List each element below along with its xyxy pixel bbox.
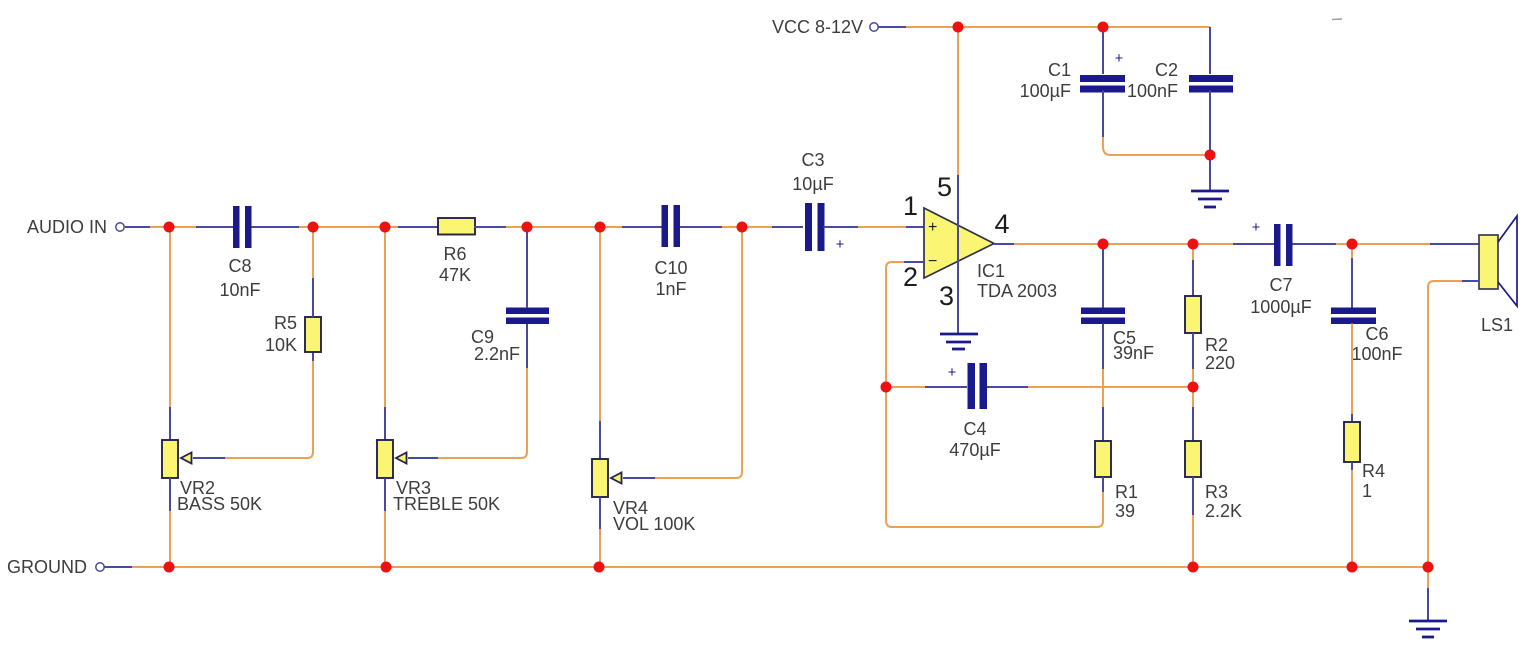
node signal-VR3 junction — [380, 222, 391, 233]
wire audio-in lead — [125, 226, 150, 228]
node GROUND terminal — [7, 557, 104, 577]
wire C6 to R4 — [1351, 324, 1353, 415]
wire VR4 wiper to node — [655, 227, 742, 478]
label C3 10uF — [792, 150, 833, 194]
label C5 39nF — [1113, 328, 1154, 363]
svg-text:VOL 100K: VOL 100K — [613, 514, 695, 534]
wire C10 right lead — [680, 226, 722, 228]
svg-text:2.2K: 2.2K — [1205, 501, 1242, 521]
capacitor C1 — [1080, 75, 1125, 93]
capacitor C7 — [1274, 224, 1293, 266]
capacitor C3 — [805, 203, 825, 251]
node signal-VR4 junction — [595, 222, 606, 233]
svg-text:C3: C3 — [801, 150, 824, 170]
wire R5 column top — [312, 227, 314, 278]
svg-text:C6: C6 — [1365, 324, 1388, 344]
label IC1 TDA 2003 — [977, 261, 1057, 301]
label R2 220 — [1205, 335, 1235, 373]
resistor R1 — [1095, 441, 1111, 477]
wire VR3 bottom lead — [384, 478, 386, 511]
svg-text:10K: 10K — [265, 335, 297, 355]
wire R3 bottom lead — [1192, 477, 1194, 515]
wire signal row segment 2 — [299, 226, 398, 228]
node feedback-R2R3 junction — [1188, 382, 1199, 393]
wire C8 left lead — [196, 226, 233, 228]
wire R2 to feedback node — [1192, 369, 1194, 387]
potentiometer VR3 body — [377, 440, 393, 478]
label C6 100nF — [1351, 324, 1402, 364]
node VCC terminal — [772, 17, 878, 37]
label VR2 BASS 50K — [177, 478, 262, 514]
svg-text:5: 5 — [937, 172, 952, 202]
wire R6 left lead — [398, 226, 438, 228]
svg-text:BASS 50K: BASS 50K — [177, 494, 262, 514]
wire VR4 column bottom — [599, 529, 601, 567]
wire bottom ground stub orange — [1427, 567, 1429, 588]
wire speaker bottom lead — [1462, 280, 1479, 282]
wire C3 right lead — [824, 226, 859, 228]
wire op-amp pin1 lead — [906, 226, 924, 228]
capacitor C10 — [662, 205, 681, 247]
wire C4 right lead — [987, 386, 1028, 388]
svg-text:R1: R1 — [1115, 482, 1138, 502]
node ground-R4 junction — [1347, 562, 1358, 573]
svg-text:470µF: 470µF — [949, 440, 1000, 460]
svg-text:4: 4 — [994, 209, 1009, 239]
node signal-R5 junction — [308, 222, 319, 233]
svg-text:C2: C2 — [1155, 60, 1178, 80]
node signal-VR2 junction — [164, 222, 175, 233]
label R4 1 — [1362, 461, 1385, 501]
svg-text:C1: C1 — [1048, 60, 1071, 80]
svg-text:+: + — [1252, 220, 1260, 236]
node ground-speaker junction — [1423, 562, 1434, 573]
resistor R4 — [1344, 422, 1360, 462]
potentiometer VR3 wiper arrow — [396, 453, 407, 464]
label R1 39 — [1115, 482, 1138, 521]
capacitor C2 — [1189, 75, 1233, 93]
wire VR3 column bottom — [384, 511, 386, 567]
wire R5 top lead — [312, 278, 314, 317]
wire VR3 wiper to C9 — [438, 368, 527, 458]
svg-text:+: + — [1115, 51, 1123, 67]
svg-text:1: 1 — [1362, 481, 1372, 501]
node AUDIO IN terminal — [27, 217, 124, 237]
node signal-VR4wiper junction — [737, 222, 748, 233]
label C4 470uF — [949, 419, 1000, 460]
svg-text:C8: C8 — [228, 256, 251, 276]
node ground-VR3 junction — [381, 562, 392, 573]
potentiometer VR4 wiper arrow — [611, 473, 622, 484]
svg-text:+: + — [836, 237, 844, 253]
svg-text:1nF: 1nF — [655, 279, 686, 299]
svg-text:+: + — [928, 219, 937, 236]
wire ground lead — [104, 566, 132, 568]
svg-text:TREBLE 50K: TREBLE 50K — [393, 494, 500, 514]
wire feedback row segment 1 — [886, 386, 925, 388]
svg-text:C4: C4 — [963, 419, 986, 439]
loudspeaker LS1 — [1479, 216, 1517, 306]
wire C6 top lead — [1351, 244, 1353, 258]
wire output row segment 2 — [1336, 243, 1430, 245]
artifact smudge top right — [1332, 18, 1342, 21]
svg-text:47K: 47K — [439, 265, 471, 285]
resistor R3 — [1185, 441, 1201, 477]
wire top rail — [906, 26, 1210, 28]
label C2 100nF — [1127, 60, 1178, 101]
wire VR4 column top — [599, 227, 601, 421]
wire signal row segment 5 — [858, 226, 906, 228]
wire signal row segment 1 — [150, 226, 196, 228]
node ground-R3 junction — [1188, 562, 1199, 573]
capacitor C4 — [968, 363, 988, 409]
capacitor C8 — [233, 206, 252, 248]
svg-text:100nF: 100nF — [1127, 81, 1178, 101]
wire C2 bottom lead — [1209, 91, 1211, 156]
wire VR3 column top — [384, 227, 386, 407]
wire R2 column top — [1192, 244, 1194, 260]
svg-text:+: + — [948, 365, 956, 381]
label R6 47K — [439, 244, 471, 285]
wire VR2 top lead — [169, 407, 171, 440]
wire pin5 pin3 through line — [957, 175, 959, 333]
wire R2 top lead — [1192, 260, 1194, 296]
potentiometer VR4 body — [592, 459, 608, 497]
node feedback-pin2 junction — [881, 382, 892, 393]
wire feedback row segment 2 — [1028, 386, 1193, 388]
wire R3 column top — [1192, 387, 1194, 407]
wire C2 top lead — [1209, 27, 1211, 74]
ground symbol at bottom right — [1409, 621, 1447, 637]
svg-text:AUDIO IN: AUDIO IN — [27, 217, 107, 237]
svg-text:100µF: 100µF — [1020, 81, 1071, 101]
op-amp IC1 — [924, 208, 994, 278]
svg-text:LS1: LS1 — [1481, 315, 1513, 335]
label C1 100uF — [1020, 60, 1071, 101]
svg-text:1000µF: 1000µF — [1250, 297, 1311, 317]
svg-text:2: 2 — [903, 262, 918, 292]
wire R5 bottom lead — [312, 352, 314, 361]
node ground-VR4 junction — [594, 562, 605, 573]
svg-text:10µF: 10µF — [792, 174, 833, 194]
node output-C5 junction — [1098, 239, 1109, 250]
wire pin2 lead — [904, 261, 924, 263]
wire pin2 to feedback node — [886, 262, 904, 387]
wire VR4 wiper lead — [623, 477, 655, 479]
wire R4 column bottom — [1351, 470, 1353, 567]
svg-text:10nF: 10nF — [219, 280, 260, 300]
wire C9 bottom lead — [526, 324, 528, 368]
wire R4 top lead — [1351, 414, 1353, 422]
wire pin5 column — [957, 27, 959, 175]
wire speaker return — [1428, 281, 1462, 567]
wire R2 bottom lead — [1192, 333, 1194, 369]
node output-R2 junction — [1188, 239, 1199, 250]
wire C8 right lead — [252, 226, 300, 228]
svg-text:−: − — [928, 253, 937, 270]
wire C7 left lead — [1233, 243, 1274, 245]
wire VR4 bottom lead — [599, 497, 601, 529]
svg-text:R2: R2 — [1205, 335, 1228, 355]
svg-text:R4: R4 — [1362, 461, 1385, 481]
svg-text:100nF: 100nF — [1351, 344, 1402, 364]
capacitor C9 — [506, 308, 549, 325]
wire C1 bottom to ground node — [1103, 137, 1210, 155]
wire R1 top lead — [1102, 407, 1104, 441]
node ground-VR2 junction — [164, 562, 175, 573]
label C9 2.2nF — [471, 327, 520, 364]
wire VR2 column bottom — [169, 511, 171, 567]
resistor R2 — [1185, 296, 1201, 333]
svg-text:R6: R6 — [443, 244, 466, 264]
label R5 10K — [265, 313, 297, 355]
svg-text:R3: R3 — [1205, 482, 1228, 502]
wire C10 left lead — [622, 226, 662, 228]
wire VR3 wiper lead — [408, 457, 438, 459]
svg-text:R5: R5 — [274, 313, 297, 333]
svg-text:TDA 2003: TDA 2003 — [977, 281, 1057, 301]
wire output row segment 1 — [1014, 243, 1233, 245]
wire speaker top lead — [1430, 243, 1479, 245]
wire ground rail — [132, 566, 1428, 568]
capacitor C5 — [1081, 308, 1125, 325]
wire VCC lead — [878, 26, 906, 28]
label VR4 VOL 100K — [613, 498, 695, 534]
wire R1 feedback loop — [886, 387, 1103, 527]
svg-text:VCC 8-12V: VCC 8-12V — [772, 17, 863, 37]
wire VR2 wiper lead — [193, 457, 225, 459]
wire signal row segment 3 — [506, 226, 622, 228]
wire C9 top lead — [526, 227, 528, 308]
node junction dots — [164, 22, 1434, 573]
potentiometer VR2 wiper arrow — [181, 453, 192, 464]
label C7 1000uF — [1250, 275, 1311, 317]
svg-text:GROUND: GROUND — [7, 557, 87, 577]
label C10 1nF — [654, 258, 687, 299]
svg-text:220: 220 — [1205, 353, 1235, 373]
capacitor C6 — [1331, 308, 1376, 325]
label R3 2.2K — [1205, 482, 1242, 521]
wire signal row segment 4 — [722, 226, 772, 228]
wire op-amp output lead — [994, 243, 1014, 245]
wire C7 right lead — [1293, 243, 1337, 245]
wire C1 top lead — [1102, 27, 1104, 74]
svg-text:IC1: IC1 — [977, 261, 1005, 281]
svg-text:39: 39 — [1115, 501, 1135, 521]
wire VR2 wiper to R5 — [225, 361, 313, 458]
wire C5 to R1 — [1102, 324, 1104, 370]
ground symbol at C2 — [1191, 191, 1229, 207]
wire VR2 bottom lead — [169, 478, 171, 511]
wire VR4 top lead — [599, 421, 601, 459]
svg-text:2.2nF: 2.2nF — [474, 344, 520, 364]
wire R3 column bottom — [1192, 515, 1194, 567]
wire R6 right lead — [474, 226, 506, 228]
label VR3 TREBLE 50K — [393, 478, 500, 514]
resistor R6 — [438, 218, 475, 235]
node output-C6 junction — [1347, 239, 1358, 250]
wire R3 top lead — [1192, 407, 1194, 441]
ground symbol at pin3 — [940, 334, 978, 349]
node vcc-C1 junction — [1098, 22, 1109, 33]
node vcc-pin5 junction — [953, 22, 964, 33]
wire R1 bottom lead — [1102, 477, 1104, 492]
wire VR2 column top — [169, 227, 171, 407]
wire C2 ground stub — [1209, 155, 1211, 190]
svg-text:1: 1 — [903, 191, 918, 221]
svg-text:39nF: 39nF — [1113, 343, 1154, 363]
wire C3 left lead — [772, 226, 803, 228]
wire VR3 top lead — [384, 407, 386, 440]
svg-text:C10: C10 — [654, 258, 687, 278]
label C8 10nF — [219, 256, 260, 300]
potentiometer VR2 body — [162, 440, 178, 478]
node C1-C2 ground junction — [1205, 150, 1216, 161]
wire bottom ground stub blue — [1427, 588, 1429, 620]
wire R4 bottom lead — [1351, 462, 1353, 470]
node signal-C9 junction — [522, 222, 533, 233]
svg-text:C7: C7 — [1269, 275, 1292, 295]
resistor R5 — [305, 317, 321, 352]
wire C4 left lead — [925, 386, 967, 388]
svg-text:3: 3 — [939, 281, 954, 311]
wire C5 top lead — [1102, 244, 1104, 308]
wire C1 bottom lead — [1102, 91, 1104, 138]
